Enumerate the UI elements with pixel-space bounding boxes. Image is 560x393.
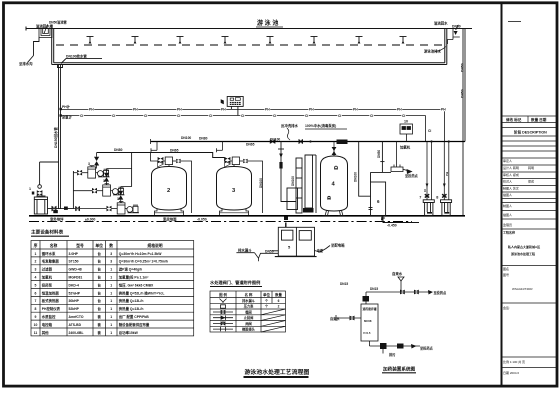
svg-text:蝶阀: 蝶阀 xyxy=(245,310,251,315)
svg-text:100%中水(消毒泵房): 100%中水(消毒泵房) xyxy=(305,123,336,128)
svg-text:会签:: 会签: xyxy=(503,305,510,310)
svg-text:DN50: DN50 xyxy=(452,25,461,29)
svg-text:换热量 Q=13L/h: 换热量 Q=13L/h xyxy=(119,298,144,303)
svg-text:Cl: Cl xyxy=(273,114,276,118)
right drop pipe to header xyxy=(462,29,464,216)
svg-text:10: 10 xyxy=(34,323,38,327)
svg-text:PH计: PH计 xyxy=(62,104,71,109)
svg-text:止回阀: 止回阀 xyxy=(244,315,254,320)
svg-text:水质监控: 水质监控 xyxy=(41,314,56,319)
svg-text:换热量 Q=13L/h: 换热量 Q=13L/h xyxy=(119,306,144,311)
svg-text:DN65: DN65 xyxy=(170,149,179,153)
svg-text:设计人 韩明: 设计人 韩明 xyxy=(503,165,519,170)
svg-text:排水漏斗: 排水漏斗 xyxy=(238,248,252,253)
svg-text:套: 套 xyxy=(98,314,102,319)
bypass manifold right xyxy=(131,153,133,187)
pool right wall xyxy=(446,29,448,65)
svg-text:30kHP: 30kHP xyxy=(69,299,80,303)
svg-text:主要设备材料表: 主要设备材料表 xyxy=(31,229,64,236)
svg-text:1: 1 xyxy=(110,331,112,335)
svg-text:型号: 型号 xyxy=(76,243,84,248)
svg-text:2: 2 xyxy=(35,260,37,264)
svg-text:台: 台 xyxy=(98,282,102,287)
svg-text:DN100: DN100 xyxy=(181,136,191,140)
svg-text:游泳池水处理工程: 游泳池水处理工程 xyxy=(511,251,535,256)
tank 2 filter xyxy=(152,167,187,216)
svg-text:MGFD81: MGFD81 xyxy=(69,276,83,280)
svg-text:GWD-48: GWD-48 xyxy=(69,268,82,272)
svg-text:-0.050: -0.050 xyxy=(197,218,207,222)
svg-text:ATS-BD: ATS-BD xyxy=(69,323,82,327)
svg-text:日期 2004.6: 日期 2004.6 xyxy=(503,370,519,375)
strainer 1 (hair collector) left xyxy=(32,162,59,214)
backwash drain drop xyxy=(278,142,296,221)
svg-text:PH: PH xyxy=(265,107,270,111)
svg-text:加氯量(投 Pa 1.1m²: 加氯量(投 Pa 1.1m² xyxy=(118,275,149,280)
svg-text:1: 1 xyxy=(110,276,112,280)
svg-text:DN100: DN100 xyxy=(354,172,358,182)
TITLE BLOCK xyxy=(502,116,557,368)
svg-text:DN50溢流管: DN50溢流管 xyxy=(49,20,68,25)
svg-text:DN65: DN65 xyxy=(246,143,255,147)
backwash bowtie on header xyxy=(270,139,276,144)
svg-text:单位: 单位 xyxy=(263,292,270,297)
svg-text:私人内蒙古大厦和城A区: 私人内蒙古大厦和城A区 xyxy=(508,244,540,249)
dosing drop lines xyxy=(425,140,450,199)
svg-text:6: 6 xyxy=(278,299,280,303)
svg-text:AmrfCTO: AmrfCTO xyxy=(69,315,84,319)
svg-text:1: 1 xyxy=(110,323,112,327)
svg-text:DN50: DN50 xyxy=(461,63,465,72)
floor drain step right xyxy=(381,216,419,223)
svg-text:制图人: 制图人 xyxy=(503,203,512,208)
svg-text:至配电箱: 至配电箱 xyxy=(331,242,345,247)
svg-text:加氯机: 加氯机 xyxy=(41,275,53,280)
svg-text:台: 台 xyxy=(98,259,102,264)
svg-text:1: 1 xyxy=(29,187,31,191)
svg-text:PH: PH xyxy=(89,107,94,111)
svg-text:DN100给水管: DN100给水管 xyxy=(66,54,87,59)
svg-text:监理员: 监理员 xyxy=(503,222,512,227)
svg-text:DN50: DN50 xyxy=(265,249,274,253)
svg-text:Cl: Cl xyxy=(209,114,212,118)
svg-text:Cl: Cl xyxy=(241,114,244,118)
svg-text:投药泵: 投药泵 xyxy=(42,282,53,287)
svg-text:随设备配套供应布量: 随设备配套供应布量 xyxy=(119,322,150,327)
nozzle N1 xyxy=(87,37,94,44)
svg-text:溶药搅拌罐: 溶药搅拌罐 xyxy=(363,307,377,311)
svg-text:1: 1 xyxy=(110,299,112,303)
pool top deck line xyxy=(26,28,472,30)
svg-text:ST150: ST150 xyxy=(69,260,79,264)
header valve at 300 xyxy=(299,139,304,144)
baseline / floor xyxy=(29,215,465,217)
svg-text:3: 3 xyxy=(35,268,37,272)
svg-text:8: 8 xyxy=(35,307,37,311)
svg-text:PH: PH xyxy=(133,107,138,111)
svg-text:电控箱: 电控箱 xyxy=(42,322,53,327)
svg-text:至投药点: 至投药点 xyxy=(405,173,419,178)
svg-text:审核人 郑成: 审核人 郑成 xyxy=(503,172,519,177)
svg-text:7: 7 xyxy=(419,195,421,199)
revision dash in title block xyxy=(508,21,521,23)
svg-text:V=0.5: V=0.5 xyxy=(363,331,371,335)
svg-text:6: 6 xyxy=(35,291,37,295)
svg-text:DN150回水管: DN150回水管 xyxy=(53,127,58,148)
svg-text:数量: 数量 xyxy=(274,292,282,297)
svg-text:套: 套 xyxy=(98,330,102,335)
svg-text:橡胶接头: 橡胶接头 xyxy=(242,327,256,332)
svg-text:制图人 苏文: 制图人 苏文 xyxy=(503,186,519,191)
svg-text:恒压. Gw² 6kk6 CMBX: 恒压. Gw² 6kk6 CMBX xyxy=(119,282,154,287)
svg-text:2: 2 xyxy=(167,188,170,194)
pool right overflow / drain fittings xyxy=(448,25,460,44)
svg-text:3: 3 xyxy=(88,162,90,166)
svg-text:台: 台 xyxy=(98,251,102,256)
svg-text:数量 日期: 数量 日期 xyxy=(530,117,547,122)
dosing unit 7 xyxy=(423,200,434,216)
tank 2 top valves xyxy=(151,142,192,214)
svg-text:过滤器: 过滤器 xyxy=(42,267,53,272)
svg-text:审定人: 审定人 xyxy=(503,158,512,163)
svg-text:描图人: 描图人 xyxy=(503,192,512,197)
svg-text:阶段 DESCRIPTION: 阶段 DESCRIPTION xyxy=(514,130,547,135)
svg-text:-0.450: -0.450 xyxy=(387,224,397,228)
drain funnel annotation xyxy=(236,253,278,262)
tank 4 xyxy=(321,156,348,216)
svg-text:余氯计: 余氯计 xyxy=(61,115,73,120)
svg-text:Cl: Cl xyxy=(305,114,308,118)
svg-text:自来水: 自来水 xyxy=(392,271,403,276)
svg-text:溢流回水: 溢流回水 xyxy=(434,21,448,26)
svg-text:2: 2 xyxy=(278,305,280,309)
svg-text:压力表: 压力表 xyxy=(244,304,254,309)
svg-text:台: 台 xyxy=(98,275,102,280)
svg-text:泵房地面: 泵房地面 xyxy=(163,217,177,222)
svg-text:3.0HP: 3.0HP xyxy=(69,252,79,256)
POOL xyxy=(26,27,472,65)
svg-text:名称: 名称 xyxy=(50,243,58,248)
svg-text:Cl: Cl xyxy=(144,114,147,118)
svg-text:自来水: 自来水 xyxy=(330,316,340,321)
svg-text:序: 序 xyxy=(33,243,38,248)
heat exchanger columns xyxy=(287,155,316,213)
svg-text:Cl: Cl xyxy=(80,114,83,118)
svg-text:Cl: Cl xyxy=(370,114,373,118)
svg-text:Cl: Cl xyxy=(177,114,180,118)
balance tank 6 xyxy=(369,142,392,221)
svg-text:滤P速 Q=40g/h: 滤P速 Q=40g/h xyxy=(119,267,142,272)
main header line xyxy=(151,141,466,143)
controller box on sensor lines xyxy=(227,97,243,116)
svg-text:恒温加热器: 恒温加热器 xyxy=(42,290,60,295)
svg-text:至投药点: 至投药点 xyxy=(420,346,434,351)
svg-text:名 称: 名 称 xyxy=(245,292,253,297)
svg-text:WSA444/T2DR: WSA444/T2DR xyxy=(512,287,533,291)
control cabinet 5 xyxy=(273,223,331,257)
svg-text:郑成: 郑成 xyxy=(528,179,534,184)
svg-text:校对人: 校对人 xyxy=(503,179,512,184)
svg-text:描图人: 描图人 xyxy=(503,212,512,217)
svg-text:1: 1 xyxy=(110,268,112,272)
svg-text:数: 数 xyxy=(108,243,113,248)
svg-text:游 泳 池: 游 泳 池 xyxy=(257,19,278,27)
pool left wall xyxy=(51,29,53,65)
svg-text:循环水泵: 循环水泵 xyxy=(41,251,56,256)
svg-text:2400-6BL: 2400-6BL xyxy=(69,331,84,335)
svg-text:套: 套 xyxy=(98,322,102,327)
pump P2 row xyxy=(92,184,125,196)
svg-text:8: 8 xyxy=(436,195,438,199)
svg-text:1: 1 xyxy=(110,315,112,319)
svg-text:排水漏斗: 排水漏斗 xyxy=(242,298,256,303)
svg-text:4: 4 xyxy=(35,276,37,280)
pipe right of tank4 xyxy=(359,142,371,197)
svg-text:52kHP: 52kHP xyxy=(69,307,80,311)
svg-text:修改 标记: 修改 标记 xyxy=(505,117,522,122)
svg-text:DN50: DN50 xyxy=(377,150,381,158)
svg-text:毛发聚集器: 毛发聚集器 xyxy=(42,259,60,264)
svg-text:图号: 图号 xyxy=(503,272,509,277)
svg-text:至投药点: 至投药点 xyxy=(434,290,448,295)
svg-text:电缆: 电缆 xyxy=(317,248,324,253)
svg-text:工程名称: 工程名称 xyxy=(503,230,515,235)
dosing unit 8 xyxy=(441,200,452,216)
svg-text:闸阀: 闸阀 xyxy=(245,321,251,326)
svg-text:反冲洗排水: 反冲洗排水 xyxy=(281,123,299,128)
legend symbols xyxy=(213,299,233,332)
svg-text:3: 3 xyxy=(110,260,112,264)
svg-text:至排水沟: 至排水沟 xyxy=(19,61,33,66)
pump P3 row xyxy=(107,202,140,214)
svg-text:Cl: Cl xyxy=(402,114,405,118)
svg-text:Q=30m³/h D=0.25m² 1=0.75m/h: Q=30m³/h D=0.25m² 1=0.75m/h xyxy=(119,260,168,264)
svg-text:总功率15kW: 总功率15kW xyxy=(119,330,139,335)
svg-text:±0.000: ±0.000 xyxy=(85,218,95,222)
tank 3 filter xyxy=(217,167,252,216)
ejector bracket xyxy=(391,142,413,175)
svg-text:韩明: 韩明 xyxy=(528,165,534,170)
svg-text:1: 1 xyxy=(110,291,112,295)
pump P1 row xyxy=(77,166,110,178)
svg-text:PH控制仪表: PH控制仪表 xyxy=(42,306,61,311)
svg-text:7: 7 xyxy=(35,299,37,303)
svg-text:11: 11 xyxy=(34,331,38,335)
svg-text:Cl: Cl xyxy=(112,114,115,118)
svg-text:排污: 排污 xyxy=(389,352,396,357)
svg-text:水处理阀门、管道附件图例: 水处理阀门、管道附件图例 xyxy=(210,279,260,286)
svg-text:PH: PH xyxy=(441,107,446,111)
svg-text:3: 3 xyxy=(103,179,105,183)
svg-text:图 例: 图 例 xyxy=(219,292,227,297)
pool main drain xyxy=(58,58,103,67)
svg-text:1: 1 xyxy=(35,252,37,256)
svg-text:3: 3 xyxy=(110,252,112,256)
svg-text:Q=30m³/h H=10m P=1.5kW: Q=30m³/h H=10m P=1.5kW xyxy=(119,252,162,256)
svg-text:DN100: DN100 xyxy=(259,178,263,188)
svg-text:Cl: Cl xyxy=(423,189,427,192)
ground dashed line xyxy=(29,221,412,223)
svg-text:规格说明: 规格说明 xyxy=(146,243,162,248)
main return pipe from pool bottom xyxy=(59,65,61,209)
tank 4 top valve xyxy=(327,140,348,200)
materials table rows xyxy=(34,251,168,335)
PH sensor line xyxy=(61,110,445,142)
svg-text:单位: 单位 xyxy=(95,243,103,248)
svg-text:其他: 其他 xyxy=(41,330,49,335)
svg-text:DN100: DN100 xyxy=(291,176,295,186)
svg-text:加药装置系统图: 加药装置系统图 xyxy=(382,366,416,373)
title block divider xyxy=(501,3,503,386)
pool water dashed line xyxy=(56,44,442,46)
svg-text:比例 1:100 共 页: 比例 1:100 共 页 xyxy=(503,359,525,364)
svg-text:Cl: Cl xyxy=(428,129,431,133)
overflow gutter top-left xyxy=(39,25,52,38)
svg-text:加氯机: 加氯机 xyxy=(399,145,411,150)
svg-text:DN50: DN50 xyxy=(461,89,465,98)
svg-text:台: 台 xyxy=(98,290,102,295)
svg-text:台: 台 xyxy=(98,298,102,303)
svg-text:板式换热器: 板式换热器 xyxy=(42,298,60,303)
svg-text:DKD-4: DKD-4 xyxy=(69,283,79,287)
svg-text:台: 台 xyxy=(98,306,102,311)
svg-text:PH: PH xyxy=(221,107,226,111)
pool bottom xyxy=(52,64,447,66)
svg-text:DN15: DN15 xyxy=(340,282,348,286)
svg-text:台: 台 xyxy=(98,267,102,272)
svg-text:52%HP: 52%HP xyxy=(69,291,81,295)
svg-text:出厂 配置 CPP/PkB: 出厂 配置 CPP/PkB xyxy=(119,314,150,319)
tank 3 top valves xyxy=(217,142,263,214)
svg-text:Cl: Cl xyxy=(338,114,341,118)
svg-text:9: 9 xyxy=(35,315,37,319)
legend rows xyxy=(242,298,279,332)
svg-text:换热量 Q=52L/h 換Wh/Y=YcL: 换热量 Q=52L/h 換Wh/Y=YcL xyxy=(119,290,165,295)
svg-text:室外地坪: 室外地坪 xyxy=(50,217,64,222)
svg-text:MC08: MC08 xyxy=(364,319,372,323)
svg-text:PH: PH xyxy=(445,172,449,176)
suction line from strainer xyxy=(48,206,74,213)
svg-text:PH: PH xyxy=(309,107,314,111)
svg-text:图名: 图名 xyxy=(503,266,509,271)
svg-text:DN15: DN15 xyxy=(370,287,378,291)
svg-text:3: 3 xyxy=(117,197,119,201)
svg-text:1: 1 xyxy=(110,307,112,311)
pump suction manifold xyxy=(72,171,74,209)
gutter drain pipe to left xyxy=(28,38,40,63)
svg-text:10: 10 xyxy=(404,120,408,124)
svg-text:1: 1 xyxy=(110,283,112,287)
svg-text:DN80: DN80 xyxy=(114,148,123,152)
chlorinator controller 10 xyxy=(400,124,413,142)
svg-text:PH: PH xyxy=(353,107,358,111)
svg-text:PH: PH xyxy=(177,107,182,111)
svg-text:5: 5 xyxy=(35,283,37,287)
pump discharge header xyxy=(97,153,225,158)
inlet nozzles xyxy=(87,37,407,44)
svg-text:DN80: DN80 xyxy=(199,137,208,141)
svg-text:游泳池水处理工艺流程图: 游泳池水处理工艺流程图 xyxy=(245,368,310,376)
svg-text:PH: PH xyxy=(397,107,402,111)
